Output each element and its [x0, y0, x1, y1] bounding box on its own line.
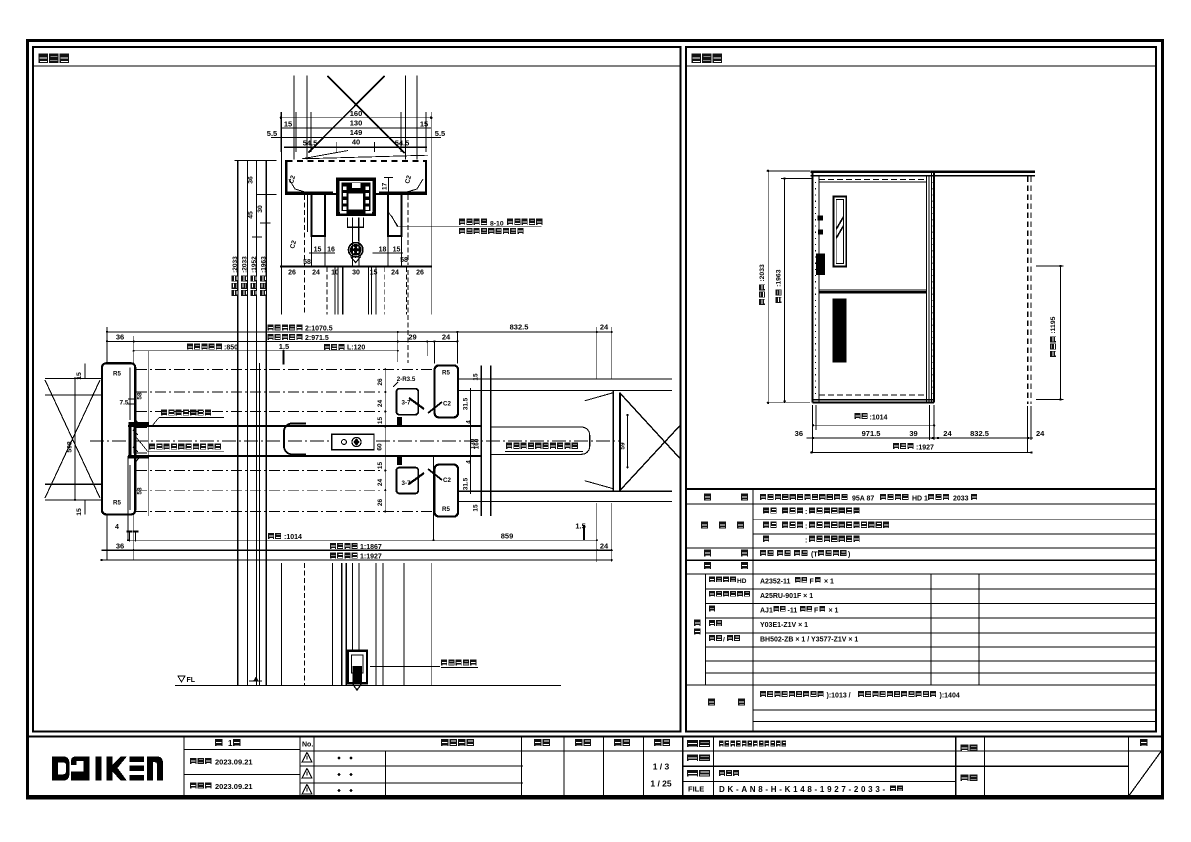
guide pin label leader	[370, 666, 440, 668]
elevation dim row 36 971.5 39 24 832.5 24	[807, 437, 1034, 439]
svg-text:31.5: 31.5	[463, 477, 470, 490]
housing center chamber	[349, 194, 364, 210]
dimension line 149 with 5.5s	[271, 137, 441, 139]
svg-text:× 1: × 1	[829, 608, 839, 615]
kenmei column	[955, 737, 957, 797]
svg-text:54.5: 54.5	[395, 138, 410, 147]
svg-text:24: 24	[1036, 429, 1045, 438]
svg-text::: :	[805, 509, 807, 516]
name section lines	[682, 737, 684, 797]
warning triangle 1	[302, 753, 312, 763]
svg-text:15: 15	[76, 508, 83, 516]
door pocket U black	[130, 423, 149, 457]
title: shoumen-zu (front view)	[692, 54, 722, 63]
latch jamb profile top (R5 C2)	[435, 366, 458, 418]
dash-dot projection lines lower	[136, 470, 381, 472]
svg-text:BH502-ZB × 1 / Y3577-Z1V × 1: BH502-ZB × 1 / Y3577-Z1V × 1	[760, 637, 858, 644]
svg-text:54.5: 54.5	[303, 138, 318, 147]
spec content katashiki	[760, 494, 848, 500]
svg-text::1963: :1963	[776, 269, 783, 287]
page column	[1128, 737, 1130, 797]
svg-text:2023.09.21: 2023.09.21	[215, 758, 253, 767]
svg-text:R5: R5	[442, 506, 450, 513]
svg-text:24: 24	[600, 541, 609, 550]
svg-text:26: 26	[377, 499, 384, 507]
elevation window slit outer	[833, 196, 846, 266]
dash-dot projection lines upper	[136, 368, 435, 370]
head jamb box	[286, 161, 426, 194]
right frame title strip line	[686, 65, 1156, 67]
DAIKEN logo letter D	[52, 757, 70, 781]
spec table part content columns	[930, 574, 932, 685]
elevation dim 2033 left	[767, 171, 769, 403]
door lock plate	[332, 434, 374, 449]
vertical section door edge lines lower half	[331, 563, 333, 685]
dim chain x=385 26 24 15	[384, 369, 386, 511]
plan bottom dim extensions	[127, 456, 129, 540]
svg-text:3-7: 3-7	[402, 400, 412, 407]
svg-text:L:120: L:120	[347, 345, 365, 352]
annotation A-face text	[161, 410, 211, 416]
annotation text line2	[459, 228, 524, 234]
svg-text:DK-AN8-H-K148-1927-2033-: DK-AN8-H-K148-1927-2033-	[719, 785, 888, 794]
pocket mouth chamfers	[135, 420, 138, 463]
rotated label yuukou-daka 1952	[251, 276, 257, 296]
svg-text:15: 15	[473, 504, 480, 512]
svg-text:1 / 3: 1 / 3	[653, 762, 670, 772]
spec label kanagu	[704, 562, 711, 569]
spec table remarks rows	[753, 709, 1156, 711]
svg-text:149: 149	[350, 128, 363, 137]
spec table part rows	[705, 588, 1156, 590]
svg-text:26: 26	[288, 270, 296, 277]
svg-text:):1404: ):1404	[940, 692, 960, 699]
svg-text:26: 26	[377, 378, 384, 386]
svg-text:24: 24	[943, 429, 952, 438]
centerline dash lower	[303, 563, 305, 685]
elevation dim 1195 right	[1060, 266, 1062, 399]
elevation lower pull black	[832, 298, 846, 362]
svg-text:29: 29	[408, 332, 416, 341]
svg-text:Y03E1-Z1V × 1: Y03E1-Z1V × 1	[760, 622, 808, 629]
plan dim line 3 850 / 1.5 / hikishiro 120	[134, 350, 398, 352]
head lower dimension line 26 24 10 30 15 24 26	[281, 266, 431, 268]
housing white inner ring top	[340, 181, 373, 183]
tick 30/45	[260, 222, 271, 224]
svg-text:15: 15	[76, 372, 83, 380]
elevation pocket dashed lines	[1027, 177, 1029, 405]
svg-text::1963: :1963	[260, 256, 267, 273]
revision dots	[338, 757, 341, 760]
svg-text:1.5: 1.5	[279, 342, 289, 351]
name content	[719, 740, 786, 746]
svg-text:45: 45	[248, 211, 255, 219]
plan top dim line kakugai 1070.5 + 832.5 + 24	[107, 331, 612, 333]
svg-text:15: 15	[420, 120, 428, 129]
tick 36	[257, 193, 277, 195]
door handle end cap	[284, 424, 306, 455]
svg-text:24: 24	[391, 270, 399, 277]
warning triangle 2	[302, 769, 312, 779]
plan bottom dim line 1867 / 36 / 24	[102, 549, 612, 551]
spec table row 548	[686, 547, 1156, 549]
svg-text:1.5: 1.5	[575, 522, 585, 531]
svg-text:16: 16	[327, 247, 335, 254]
svg-text:8-10: 8-10	[490, 220, 504, 227]
revision history header	[441, 739, 474, 746]
spec remarks label	[708, 699, 715, 706]
svg-text::2033: :2033	[232, 256, 239, 273]
spec table finish rows	[753, 519, 1156, 521]
svg-text:/: /	[723, 637, 725, 644]
centerline dashes door rails	[303, 195, 305, 315]
svg-text::2033: :2033	[241, 256, 248, 273]
svg-text:15: 15	[284, 120, 292, 129]
svg-text:F: F	[810, 579, 815, 586]
pocket mouth extension line	[148, 351, 150, 516]
annotation screw cap left text	[149, 444, 221, 450]
svg-text::1952: :1952	[251, 256, 258, 273]
floor line FL	[175, 684, 561, 686]
right wall cap diagonals	[585, 393, 614, 401]
svg-text:2023.09.21: 2023.09.21	[215, 782, 253, 791]
elevation bottom extension lines	[811, 405, 813, 452]
svg-text:31.5: 31.5	[463, 397, 470, 410]
svg-text:60: 60	[377, 443, 384, 451]
approval columns	[521, 737, 523, 797]
svg-text::850: :850	[224, 345, 238, 352]
svg-text:AJ1: AJ1	[760, 608, 773, 615]
door top rail left U profile	[310, 195, 312, 237]
small dim tick at FL	[249, 680, 262, 682]
spec table row line 504	[686, 503, 1156, 505]
title: dan-men-zu (section view)	[39, 54, 69, 63]
vertical section extension lines	[280, 112, 282, 315]
svg-text:130: 130	[350, 118, 363, 127]
svg-text:40: 40	[352, 138, 360, 147]
svg-text:R5: R5	[113, 371, 121, 378]
svg-text:24: 24	[377, 479, 384, 487]
hanger bolt lower lines	[352, 228, 354, 267]
svg-text:832.5: 832.5	[510, 323, 529, 332]
head jamb chamfer C2 left	[289, 179, 305, 192]
svg-text:R5: R5	[442, 370, 450, 377]
svg-text:39: 39	[909, 429, 917, 438]
DAIKEN logo letter E	[130, 757, 145, 781]
plan centerline	[90, 440, 620, 442]
door top rail right U profile	[387, 195, 389, 237]
spec label shiage	[701, 522, 708, 529]
elevation door mid rail	[819, 291, 927, 293]
svg-text:859: 859	[501, 532, 514, 541]
hanger rail housing block	[336, 178, 376, 217]
svg-text:(T: (T	[811, 552, 818, 559]
housing top hanger slot	[352, 183, 361, 188]
svg-text:2:971.5: 2:971.5	[305, 335, 329, 342]
elevation lock case black	[816, 254, 825, 276]
elevation hinge dots	[817, 215, 823, 220]
svg-text::1927: :1927	[916, 445, 934, 452]
svg-text:1: 1	[228, 739, 233, 748]
dim line under rails right	[373, 252, 404, 254]
svg-text::: :	[805, 523, 807, 530]
spec label katashiki	[704, 494, 711, 501]
svg-text:R5: R5	[113, 500, 121, 507]
svg-text:1:1867: 1:1867	[360, 544, 382, 551]
right wall lines	[458, 378, 672, 380]
left jamb profile (handle side)	[102, 363, 135, 514]
left height dim vertical lines	[237, 161, 239, 686]
svg-text:No.: No.	[302, 741, 313, 748]
svg-text:4: 4	[466, 460, 473, 464]
hanger bolt adjusting nut circle	[349, 243, 363, 257]
dimension 17 at rail	[388, 178, 390, 195]
svg-text:832.5: 832.5	[970, 429, 989, 438]
warning triangle 3	[302, 785, 312, 795]
svg-text:24: 24	[600, 323, 609, 332]
elevation dim 1963	[784, 179, 786, 402]
elevation dim 1014	[813, 424, 934, 426]
elevation window glass diagonals	[836, 226, 843, 238]
svg-text:24: 24	[377, 400, 384, 408]
spec table outer top line	[686, 488, 1156, 490]
wall stud lines above head	[293, 76, 295, 161]
svg-text::1014: :1014	[870, 415, 888, 422]
spec part row labels	[709, 576, 736, 582]
title block vertical line after logo	[183, 737, 185, 797]
latch area small profile top (2-R3.5)	[396, 389, 418, 415]
right wall dim 59	[627, 415, 629, 467]
svg-text:26: 26	[416, 270, 424, 277]
svg-text:× 1: × 1	[824, 579, 834, 586]
spec finish row2	[763, 522, 777, 528]
head jamb bottom edge with center opening	[286, 192, 333, 194]
door section stub lines 267-314	[334, 267, 336, 315]
spec table row 574	[686, 573, 1156, 575]
left jamb step 7.5	[128, 399, 135, 404]
svg-text:598: 598	[67, 441, 74, 453]
spec finish row1	[763, 508, 777, 514]
svg-text:24: 24	[312, 270, 320, 277]
svg-text:FL: FL	[187, 677, 196, 684]
svg-text:HD 1: HD 1	[912, 496, 928, 503]
latch bolt symbols	[397, 417, 402, 426]
revision rows lines	[300, 765, 523, 767]
head jamb chamfer C2 right	[407, 179, 423, 192]
svg-text:36: 36	[795, 429, 803, 438]
svg-text:15: 15	[377, 462, 384, 470]
guide pin black	[353, 666, 363, 683]
annotation hanger adjustable leader	[398, 225, 542, 227]
phantom door open position	[491, 427, 590, 454]
right wall X brace	[620, 393, 680, 459]
vertical section door edge lines going down	[310, 195, 312, 267]
title block bottom line	[28, 795, 1162, 797]
svg-text:1:1927: 1:1927	[360, 554, 382, 561]
elevation top rail	[811, 171, 1035, 173]
latch area small profile bottom	[396, 468, 418, 494]
svg-text:58: 58	[137, 487, 144, 495]
svg-text:36: 36	[116, 332, 124, 341]
svg-text:36: 36	[116, 541, 124, 550]
spec finish row3	[763, 536, 769, 542]
taper shim wedge above head jamb	[302, 155, 428, 159]
plan bottom dim line tobira 1014 / 859	[128, 539, 597, 541]
svg-text:30: 30	[352, 270, 360, 277]
header dai-1-han	[215, 739, 222, 746]
plan dim line 2 yuko 971.5 / 36 / 29 / 24	[107, 340, 457, 342]
name labels	[687, 740, 710, 747]
svg-text:2-R3.5: 2-R3.5	[397, 376, 416, 383]
svg-text::1014: :1014	[284, 534, 302, 541]
pocket frame vertical lines	[480, 366, 482, 516]
rotated label tobira-daka 1963	[260, 276, 266, 296]
hanger bolt	[352, 217, 354, 241]
lower section track lines	[341, 563, 343, 685]
annotation screw cap left leader	[148, 450, 225, 452]
housing white side ring	[340, 181, 342, 212]
spec label totte	[704, 550, 711, 557]
guide pin label text	[441, 659, 476, 665]
svg-text:): )	[848, 552, 850, 559]
svg-text:30: 30	[257, 205, 264, 213]
title block top line	[28, 736, 1162, 738]
spec table label column line	[752, 489, 754, 732]
dimension line 160	[281, 117, 431, 119]
guide pin detail box	[348, 651, 367, 683]
annotation screw cap right text	[506, 443, 578, 449]
svg-text:HD: HD	[737, 578, 747, 585]
rotated label waku-gai-daka 2033	[232, 276, 238, 296]
elevation door right stile	[925, 176, 927, 403]
svg-text:971.5: 971.5	[862, 429, 881, 438]
dim line under rails left	[309, 252, 335, 254]
left wall X brace	[45, 380, 100, 498]
svg-text:A2352-11: A2352-11	[760, 579, 790, 586]
svg-text:15: 15	[377, 417, 384, 425]
elevation window slit inner	[836, 200, 843, 264]
svg-text:18: 18	[379, 247, 387, 254]
tick mark 1.5	[282, 352, 284, 365]
svg-text:-11: -11	[788, 608, 798, 615]
spec table row 560	[686, 559, 1156, 561]
FL label	[178, 676, 185, 682]
svg-text:4: 4	[466, 420, 473, 424]
DAIKEN logo letter n	[147, 757, 163, 781]
right view frame (front view)	[686, 47, 1156, 732]
svg-text:58: 58	[137, 392, 144, 400]
dimension line 40 / 54.5	[284, 146, 427, 148]
svg-text:C2: C2	[443, 477, 451, 484]
wall cross brace X	[327, 76, 404, 153]
svg-text:15: 15	[314, 247, 322, 254]
svg-text:95A 87: 95A 87	[852, 496, 874, 503]
elevation door bottom edge	[819, 394, 927, 396]
elevation dim 1927	[811, 451, 1031, 453]
door leaf plan top edge	[128, 425, 481, 427]
svg-text:36: 36	[248, 176, 255, 184]
svg-text:2033: 2033	[953, 496, 969, 503]
plan bottom dim line 1927	[102, 559, 612, 561]
No column	[299, 737, 301, 797]
svg-text::1195: :1195	[1050, 316, 1057, 333]
svg-text:17: 17	[382, 182, 389, 190]
rotated label uchinori-daka 2033	[241, 276, 247, 296]
housing checker cells left	[343, 187, 347, 190]
annotation A-face leader	[159, 417, 224, 419]
svg-text:A25RU-901F × 1: A25RU-901F × 1	[760, 593, 813, 600]
svg-text:C2: C2	[443, 401, 451, 408]
svg-text:2:1070.5: 2:1070.5	[305, 325, 333, 332]
elevation door top edge lines	[819, 178, 927, 180]
svg-text:59: 59	[620, 442, 627, 450]
svg-text:F: F	[814, 608, 819, 615]
svg-text:7.5: 7.5	[119, 400, 128, 407]
door section stub dashes 267-314	[326, 267, 328, 315]
kaitei-bi row	[190, 782, 211, 788]
left view frame (section view)	[33, 47, 681, 732]
dimension extension lines top section	[280, 112, 282, 152]
spec content totte	[760, 550, 774, 556]
door leaf plan bottom edge	[128, 455, 481, 457]
left wall dim 598	[74, 378, 76, 500]
DAIKEN logo letter i	[96, 757, 102, 781]
elevation door left stile	[811, 172, 813, 403]
header underline across	[300, 750, 1162, 752]
svg-text:58: 58	[303, 259, 311, 266]
svg-text:24: 24	[442, 332, 451, 341]
housing checker cells right	[365, 187, 369, 190]
left frame title strip line	[33, 65, 681, 67]
svg-text:1 / 25: 1 / 25	[650, 779, 672, 789]
revision inner column	[384, 751, 386, 797]
spec table row 685	[686, 684, 1156, 686]
svg-text:):1013 /: ):1013 /	[827, 692, 851, 699]
svg-text:15: 15	[393, 247, 401, 254]
svg-text:5.5: 5.5	[435, 129, 445, 138]
plan dim extension lines top	[106, 327, 108, 363]
svg-text:FILE: FILE	[688, 785, 704, 794]
svg-text:5.5: 5.5	[267, 129, 277, 138]
spec table sub column line	[704, 574, 706, 685]
scale column	[654, 739, 670, 746]
seitei-bi row	[190, 758, 211, 764]
spec hinban vertical label	[694, 620, 700, 626]
page diagonal	[1129, 751, 1162, 797]
dimension line 130 with 15s	[281, 127, 431, 129]
svg-text::: :	[805, 537, 807, 544]
left height dim extension bar	[235, 160, 277, 162]
svg-text:160: 160	[350, 109, 363, 118]
svg-text:4: 4	[115, 524, 119, 531]
latch jamb profile bottom	[435, 465, 458, 517]
left wall lines	[45, 377, 102, 379]
housing bottom side notches	[340, 211, 347, 214]
svg-text::2033: :2033	[759, 264, 766, 282]
right wall end studs	[612, 390, 614, 491]
DAIKEN logo letter a	[71, 757, 90, 781]
svg-text:160: 160	[474, 438, 481, 449]
tick 1.5 bottom	[583, 525, 585, 540]
annotation text hanger adjustment line1	[459, 219, 487, 225]
spec remarks content	[760, 691, 824, 697]
DAIKEN logo letter K	[107, 757, 127, 781]
